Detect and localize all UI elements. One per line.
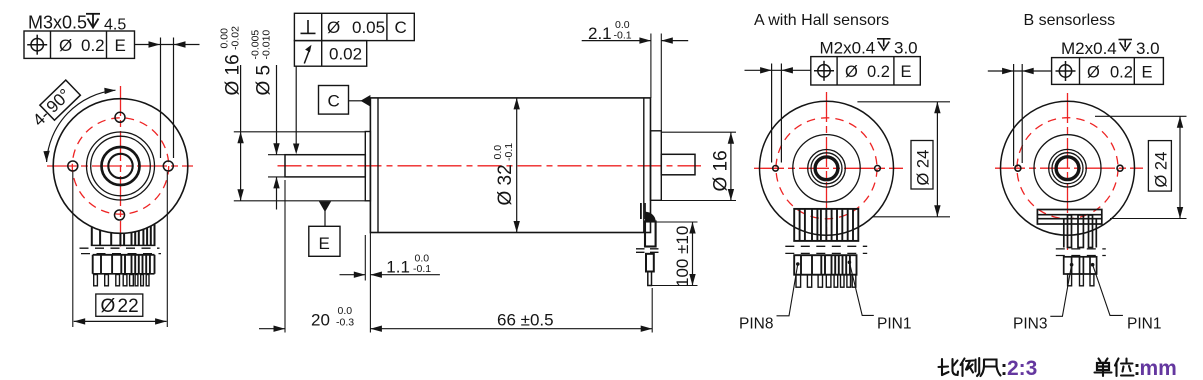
cable bundle lower: [646, 254, 654, 272]
depth symbol: [877, 39, 891, 50]
feature control frame: [811, 57, 921, 85]
svg-text:Ø: Ø: [59, 36, 72, 55]
pin3 leader: [1070, 263, 1074, 267]
centerline horizontal: [47, 165, 193, 167]
hole right: [1117, 165, 1123, 171]
position symbol: [814, 61, 834, 81]
hole right: [163, 161, 173, 171]
motor body: [370, 98, 650, 233]
centerline horizontal: [754, 167, 903, 169]
bolt circle red dashed: [1017, 118, 1118, 219]
svg-text:3.0: 3.0: [1136, 39, 1160, 58]
feature control frame: [1052, 58, 1164, 85]
depth symbol: [1119, 40, 1133, 51]
svg-text:PIN1: PIN1: [877, 316, 911, 333]
front boss: [365, 132, 370, 201]
svg-text:22: 22: [118, 296, 139, 317]
connector pin channels: [1064, 215, 1097, 248]
hole left: [773, 166, 779, 172]
svg-text:M3x0.5: M3x0.5: [28, 13, 87, 33]
dim dia5 front: [268, 154, 285, 156]
angular dimension arc 4-90: [47, 90, 116, 162]
shaft circle: [108, 154, 132, 178]
break dashes: [1056, 248, 1106, 250]
perpendicularity symbol: [301, 20, 316, 33]
break dashes: [785, 245, 867, 247]
hole left: [1015, 165, 1021, 171]
hole top: [115, 112, 125, 122]
dim 100+-10: [655, 221, 698, 223]
inner circle: [793, 135, 860, 202]
hole left: [68, 161, 78, 171]
pin1 leader: [1091, 263, 1095, 267]
cable break dashes: [636, 248, 664, 250]
bolt circle (red dashed): [72, 118, 168, 214]
svg-text:0.2: 0.2: [867, 63, 890, 81]
svg-text:2.1: 2.1: [588, 24, 612, 43]
svg-text:PIN1: PIN1: [1127, 316, 1161, 333]
svg-text:Ø 24: Ø 24: [915, 150, 933, 186]
svg-text:0.2: 0.2: [1110, 64, 1133, 82]
feature control frame (position 0.2 E): [24, 31, 135, 58]
svg-text:20: 20: [311, 311, 330, 330]
hole extension lines: [1013, 64, 1015, 166]
dia22 dimension line: [74, 320, 167, 322]
svg-text:-0.1: -0.1: [413, 263, 431, 275]
svg-text:PIN8: PIN8: [739, 316, 773, 333]
pin1 leader: [848, 261, 852, 265]
svg-text:E: E: [1142, 64, 1153, 82]
svg-text:Ø 16: Ø 16: [223, 54, 244, 95]
datum C box and triangle: [319, 86, 349, 115]
单: [1099, 359, 1101, 362]
hub circles: [808, 150, 846, 188]
svg-text:Ø: Ø: [1087, 64, 1100, 82]
svg-text:0.02: 0.02: [329, 45, 362, 64]
svg-text:Ø: Ø: [101, 296, 116, 317]
dim dia16 front: [234, 131, 365, 133]
connector top block: [794, 209, 858, 241]
svg-text:B sensorless: B sensorless: [1024, 12, 1116, 29]
cable wire: [648, 272, 652, 286]
unit label 单位 (drawn strokes): [1095, 359, 1134, 377]
cable exit tube lines: [640, 203, 642, 219]
bolt circle red dashed: [776, 118, 877, 219]
rear cap line: [643, 98, 645, 233]
svg-text:Ø 24: Ø 24: [1153, 152, 1171, 188]
svg-text:-0.010: -0.010: [261, 30, 273, 60]
circle d34: [87, 132, 155, 200]
inner circle: [1034, 135, 1101, 202]
svg-text:-0.3: -0.3: [336, 317, 354, 329]
cable bundle upper: [645, 222, 656, 247]
circle d30: [91, 136, 151, 196]
rear boss: [651, 131, 662, 201]
connector bottom pins: [796, 275, 856, 288]
svg-text:mm: mm: [1140, 357, 1177, 380]
svg-text:E: E: [319, 234, 330, 253]
svg-text:-0.1: -0.1: [503, 143, 515, 161]
dim 1.1: [364, 235, 366, 281]
svg-text:100 ±10: 100 ±10: [673, 226, 692, 287]
axis centerline: [278, 165, 702, 167]
rear shaft: [661, 154, 695, 175]
dim 2.1 top: [650, 34, 652, 98]
svg-text:M2x0.4: M2x0.4: [820, 38, 876, 57]
centerline vertical: [826, 92, 828, 241]
centerline vertical: [120, 86, 122, 247]
leader to hole: [988, 70, 1052, 72]
svg-text:Ø: Ø: [327, 18, 340, 37]
bottom pins: [1068, 274, 1094, 286]
svg-text:66 ±0.5: 66 ±0.5: [497, 310, 554, 329]
fcf row1 perpendicularity: [294, 13, 414, 40]
flange outer circle: [53, 99, 188, 234]
例: [961, 359, 965, 366]
svg-text:E: E: [115, 36, 126, 55]
dia22 boxed label: [96, 294, 143, 316]
scale label 比例尺 (drawn strokes): [939, 358, 1001, 376]
front housing line: [377, 98, 379, 233]
hole right: [875, 166, 881, 172]
svg-text:-0.02: -0.02: [230, 26, 242, 50]
svg-text:0.2: 0.2: [81, 36, 105, 55]
svg-text:0.05: 0.05: [352, 18, 385, 37]
outer circle: [760, 101, 894, 235]
cable exit wedge: [645, 212, 656, 223]
fcf row2 runout: [294, 41, 366, 67]
hub circles: [1049, 149, 1087, 187]
hole extension lines: [771, 64, 773, 163]
svg-text:3.0: 3.0: [894, 38, 918, 57]
fcf leader down to shaft: [295, 66, 297, 152]
hub circle thick: [102, 147, 140, 185]
dim 66 bottom: [651, 288, 653, 333]
connector break dashes: [80, 247, 160, 249]
比: [941, 359, 943, 375]
connector mid row bars: [93, 255, 155, 274]
connector lower block: [1064, 257, 1097, 274]
dim dia32: [516, 98, 518, 233]
centerline horizontal: [995, 167, 1143, 169]
runout symbol: [304, 50, 309, 64]
dim dia24: [1095, 115, 1187, 117]
dim dia24: [857, 101, 950, 103]
hole extension lines: [160, 38, 162, 159]
leader from frame to hole: [135, 44, 200, 46]
svg-text:E: E: [901, 63, 912, 81]
pin8 leader: [796, 262, 800, 266]
svg-text:M2x0.4: M2x0.4: [1061, 39, 1117, 58]
svg-text:Ø 32: Ø 32: [495, 164, 516, 205]
connector mid block: [794, 255, 856, 275]
centerline vertical: [1067, 93, 1069, 250]
svg-text:0.0: 0.0: [338, 305, 353, 317]
svg-text:-0.1: -0.1: [614, 29, 632, 41]
depth symbol: [86, 14, 100, 28]
datum E triangle and box: [319, 201, 331, 212]
connector bottom pins: [94, 275, 149, 286]
outer circle: [1001, 101, 1135, 235]
svg-text:PIN3: PIN3: [1013, 316, 1047, 333]
svg-text:Ø 5: Ø 5: [254, 65, 275, 96]
dim dia16 rear: [662, 131, 736, 133]
位: [1115, 359, 1119, 366]
dia22 extension lines: [72, 172, 74, 327]
position symbol: [27, 35, 47, 55]
hole bottom: [115, 210, 125, 220]
尺: [984, 360, 997, 367]
svg-text:C: C: [395, 18, 407, 37]
svg-text:C: C: [328, 92, 340, 111]
svg-text:Ø: Ø: [845, 63, 858, 81]
dim 20 bottom: [284, 180, 286, 333]
svg-text:1.1: 1.1: [386, 258, 410, 277]
svg-text:2:3: 2:3: [1007, 357, 1037, 380]
svg-text:A with Hall sensors: A with Hall sensors: [754, 12, 889, 29]
leader to hole: [745, 69, 811, 71]
position symbol: [1056, 61, 1076, 81]
label 4-90 rotated: [29, 80, 81, 131]
front shaft: [285, 155, 365, 177]
svg-text:Ø 16: Ø 16: [711, 150, 732, 191]
connector base: [1037, 210, 1101, 225]
connector top row bars: [91, 224, 156, 245]
